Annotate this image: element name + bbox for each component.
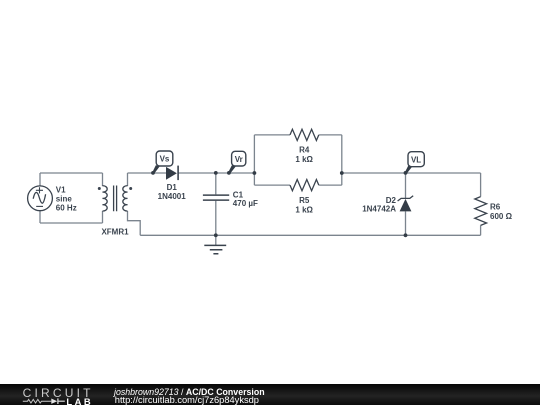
svg-text:600 Ω: 600 Ω bbox=[490, 212, 513, 221]
svg-text:D1: D1 bbox=[167, 183, 178, 192]
svg-text:Vs: Vs bbox=[160, 155, 170, 164]
svg-text:1 kΩ: 1 kΩ bbox=[295, 205, 313, 214]
svg-text:R4: R4 bbox=[299, 145, 310, 154]
svg-text:1N4742A: 1N4742A bbox=[362, 205, 396, 214]
svg-text:R5: R5 bbox=[299, 196, 310, 205]
svg-text:D2: D2 bbox=[386, 196, 397, 205]
svg-text:V1: V1 bbox=[56, 186, 66, 195]
svg-text:1N4001: 1N4001 bbox=[158, 192, 187, 201]
svg-text:470 µF: 470 µF bbox=[233, 199, 258, 208]
svg-text:sine: sine bbox=[56, 195, 73, 204]
svg-text:60 Hz: 60 Hz bbox=[56, 204, 77, 213]
svg-text:XFMR1: XFMR1 bbox=[101, 227, 129, 236]
svg-text:R6: R6 bbox=[490, 202, 501, 211]
svg-text:1 kΩ: 1 kΩ bbox=[295, 155, 313, 164]
svg-text:VL: VL bbox=[411, 155, 421, 164]
svg-text:Vr: Vr bbox=[235, 155, 243, 164]
